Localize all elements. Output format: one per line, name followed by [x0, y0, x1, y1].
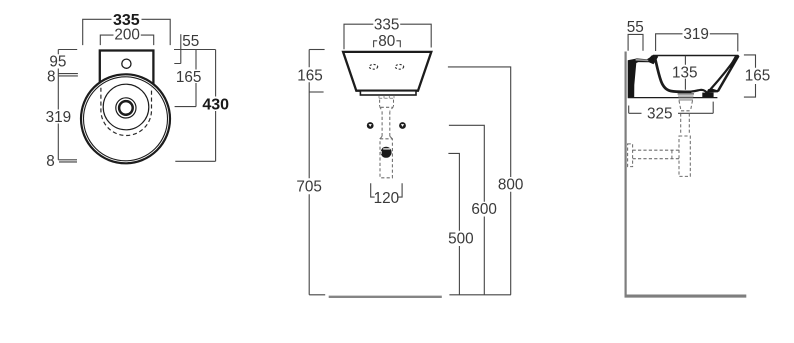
tick top (rect top): [58, 49, 77, 51]
svg-text:80: 80: [378, 33, 395, 50]
bottom tick dark: [58, 159, 77, 161]
mounting hole right: [399, 122, 406, 129]
floor line: [625, 295, 747, 298]
tick bottom: [309, 294, 325, 296]
base line: [628, 97, 718, 99]
overflow hole right: [395, 64, 403, 69]
svg-text:55: 55: [182, 33, 199, 50]
dim 319 bracket: [656, 34, 738, 52]
dim 80 marks: [374, 41, 401, 47]
drain valve black dot: [381, 147, 392, 158]
svg-text:165: 165: [297, 67, 323, 84]
left dim chain vertical: [57, 50, 59, 160]
drain shoulder taper: [380, 106, 394, 111]
svg-text:8: 8: [47, 69, 56, 86]
drain valve top slit: [383, 148, 390, 150]
wall flange dashed: [628, 144, 633, 167]
dim 120 brackets: [371, 183, 402, 197]
dim 200 bracket: [100, 35, 153, 45]
basin plinth: [360, 91, 416, 95]
drain funnel dashed: [679, 101, 693, 111]
dim 325 line: [629, 102, 714, 114]
dim 55 leader: [174, 34, 181, 63]
basin outer circle: [81, 74, 170, 163]
common bottom tick: [449, 294, 511, 296]
drain outer circle: [116, 98, 136, 118]
svg-text:8: 8: [46, 153, 55, 170]
svg-text:55: 55: [627, 19, 644, 36]
drain connector crown: [379, 96, 394, 98]
trap box dashed: [679, 136, 690, 176]
svg-text:430: 430: [202, 97, 229, 114]
wall line: [624, 52, 626, 295]
svg-text:600: 600: [471, 201, 497, 218]
bracket gray strip: [636, 59, 649, 61]
dim 600 line: [449, 125, 484, 294]
dim 8 double line: [58, 74, 78, 76]
svg-text:705: 705: [296, 178, 322, 195]
svg-text:120: 120: [374, 190, 400, 207]
bottom hump: [692, 90, 708, 93]
dim 165 line: [175, 50, 196, 107]
dim 335 bracket: [344, 24, 431, 49]
waste pipe dashed: [633, 150, 679, 159]
top tick shared: [174, 49, 216, 51]
trap flare: [380, 136, 392, 139]
tap ledge rectangle: [100, 51, 154, 96]
mounting hole left: [367, 122, 374, 129]
tip solid fill: [728, 55, 739, 68]
svg-text:165: 165: [745, 67, 771, 84]
floor line: [329, 296, 442, 298]
right inner edge: [710, 56, 737, 90]
tap hole: [122, 59, 131, 68]
foot connector blob: [706, 89, 718, 94]
drain valve left nick: [380, 151, 382, 154]
overflow hole left: [369, 64, 377, 69]
drain inner circle: [119, 101, 133, 115]
svg-text:200: 200: [114, 27, 140, 44]
foot step line: [713, 90, 718, 92]
svg-text:325: 325: [647, 105, 673, 122]
dim 335 bracket: [83, 19, 171, 45]
drain tube: [382, 111, 390, 136]
rim top line: [653, 55, 738, 57]
bowl wall curve: [655, 56, 692, 92]
dim 135 line: [684, 56, 686, 90]
dim 165 bracket: [744, 55, 756, 97]
svg-text:319: 319: [683, 26, 709, 43]
svg-text:800: 800: [498, 176, 524, 193]
trap tube dashed: [681, 113, 690, 134]
left dim line 165/705: [308, 50, 310, 295]
tick top: [309, 49, 324, 51]
hidden dashed bowl outline: [101, 88, 152, 136]
trap body box: [380, 139, 392, 178]
drain ribs: [678, 94, 694, 100]
dim 500 line: [448, 153, 459, 294]
svg-text:165: 165: [176, 69, 202, 86]
dim 800 line: [448, 67, 511, 295]
basin left section (black): [628, 55, 659, 97]
svg-text:135: 135: [672, 64, 698, 81]
svg-text:500: 500: [448, 231, 474, 248]
bottom tick gray: [59, 161, 77, 163]
dim 430 line: [175, 50, 215, 162]
tick mid (basin bottom): [309, 91, 323, 93]
dim 55 bracket: [628, 34, 643, 50]
right outer edge: [718, 56, 739, 92]
basin body trapezoid: [343, 52, 431, 91]
svg-text:319: 319: [46, 109, 72, 126]
bowl inner circle: [103, 84, 149, 130]
foot block: [702, 93, 713, 98]
basin rim inner circle: [84, 77, 168, 161]
drain neck: [380, 100, 394, 107]
svg-text:335: 335: [374, 16, 400, 33]
